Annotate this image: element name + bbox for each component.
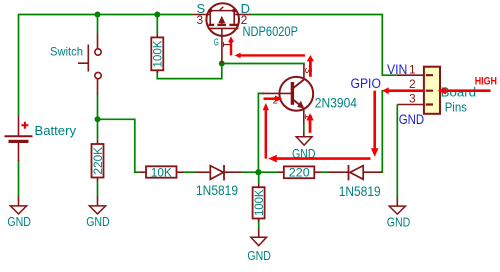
connector pin2 stub [397,90,424,92]
transistor base pin [262,92,292,94]
svg-text:HIGH: HIGH [475,76,497,88]
resistor R4 220 [278,171,284,173]
transistor emitter arrow [297,101,304,109]
svg-text:1N5819: 1N5819 [339,184,381,199]
diode D1 1N5819 [195,171,211,173]
diode D2 1N5819 [328,171,348,173]
svg-text:Switch: Switch [50,45,83,59]
wire battery bottom to ground [18,160,20,197]
svg-text:2N3904: 2N3904 [315,96,358,111]
svg-text:GPIO: GPIO [351,76,381,91]
node junction at 100K top [154,12,160,18]
transistor emitter gnd stub [303,132,305,137]
ground battery [7,197,31,229]
ground 100K2 [247,237,271,263]
connector pin1 stub [397,74,424,76]
annotation arrow to gate left [235,53,305,59]
annotation arrow collector up [307,55,314,77]
svg-text:G: G [214,36,219,48]
wire 10K to diode D1 [184,171,195,173]
mosfet D pin [234,14,250,16]
svg-text:Battery: Battery [35,123,77,138]
wire top rail from battery to switch to 100K to MOSFET S [19,15,193,117]
svg-text:220: 220 [289,165,310,179]
switch SW1 actuator [78,45,88,72]
wire 220K bottom to ground [97,181,99,198]
annotation arrow gate up [228,36,234,55]
svg-text:3: 3 [409,92,416,106]
connector body [424,67,440,114]
resistor R2 220K [97,140,99,144]
svg-text:2: 2 [409,77,416,91]
mosfet gate pin [221,28,223,63]
mosfet S vertical [209,11,211,25]
wire gate node loop to 100K bottom [157,64,222,79]
svg-text:10K: 10K [151,165,172,179]
connector J1 Board Pins [397,63,476,115]
annotation arrow HIGH into pin2 [438,87,491,95]
resistor R1 100K (top) [156,34,158,38]
resistor R3 10K [140,171,146,173]
node junction at switch top [95,12,101,18]
mosfet D vertical [233,11,235,25]
mosfet channel bars [209,24,239,26]
svg-text:GND: GND [399,112,425,127]
svg-text:GND: GND [7,215,31,229]
battery plus sign [21,122,28,129]
resistor R5 100K (pulldown) [258,184,260,187]
ground 220K [86,197,110,229]
svg-text:100K: 100K [151,41,165,68]
annotation arrow emitter up [306,113,313,133]
wire junction to 10K [98,119,141,172]
ground emitter [292,137,316,161]
node junction at gate [219,61,225,67]
annotation arrow into base right [264,96,283,102]
node junction at switch bottom [95,116,101,122]
mosfet body line [210,10,234,12]
wire gate node to transistor collector [222,64,304,65]
svg-text:1: 1 [409,63,416,77]
battery BT1 pins [18,116,20,136]
mosfet body circle [206,3,239,36]
ground connector pin3 [387,206,411,229]
transistor body circle [279,77,313,111]
svg-text:NDP6020P: NDP6020P [243,24,299,39]
switch SW1 contacts [95,49,101,55]
svg-text:VIN: VIN [387,62,407,77]
connector inner pin marks [426,75,433,104]
node A junction [255,169,261,175]
annotation arrow up to base [263,103,269,159]
connector pin3 stub [397,104,424,106]
svg-text:GND: GND [86,215,110,229]
annotation arrow left along bottom [268,155,370,163]
wire switch top stub [97,15,99,35]
mosfet S pin [193,14,211,16]
wire 100K top stub [156,15,158,34]
wire 100K2 to ground [258,219,260,230]
mosfet channel arrow [218,16,225,23]
battery BT1 plates [5,135,33,137]
wire diode D2 up to connector pin2 GPIO [379,91,397,173]
mosfet substrate mark [220,7,224,11]
transistor collector line [292,80,304,89]
annotation arrow GPIO down [371,91,379,157]
wire node A right to 220 [258,171,278,173]
transistor base bar [291,82,294,105]
wire transistor emitter to ground [303,123,305,133]
annotation arrow pin2 to GPIO [382,87,424,94]
mosfet gate bar [208,27,238,29]
wire diode D1 to node A [241,171,258,173]
svg-text:GND: GND [247,249,271,263]
wire 220 to diode D2 [320,171,328,173]
transistor Q2 2N3904 [262,64,357,137]
transistor collector pin [303,64,305,80]
svg-text:3: 3 [302,68,314,74]
switch SW1 pins [97,34,99,49]
svg-text:220K: 220K [91,147,105,175]
svg-text:3: 3 [197,13,204,27]
svg-text:100K: 100K [252,190,266,217]
svg-text:Pins: Pins [445,100,467,114]
transistor emitter line [292,99,303,108]
wire node A down to 100K2 [258,172,260,184]
wire node A up to transistor base [258,93,264,172]
MOSFET Q1 NDP6020P [193,1,299,64]
wire connector pin3 to ground [396,105,398,199]
transistor emitter pin [303,109,305,125]
wire MOSFET D to connector pin1 VIN [250,15,397,76]
svg-text:1N5819: 1N5819 [196,183,238,198]
wire switch bottom to 220K [97,94,99,140]
svg-text:GND: GND [387,215,411,229]
